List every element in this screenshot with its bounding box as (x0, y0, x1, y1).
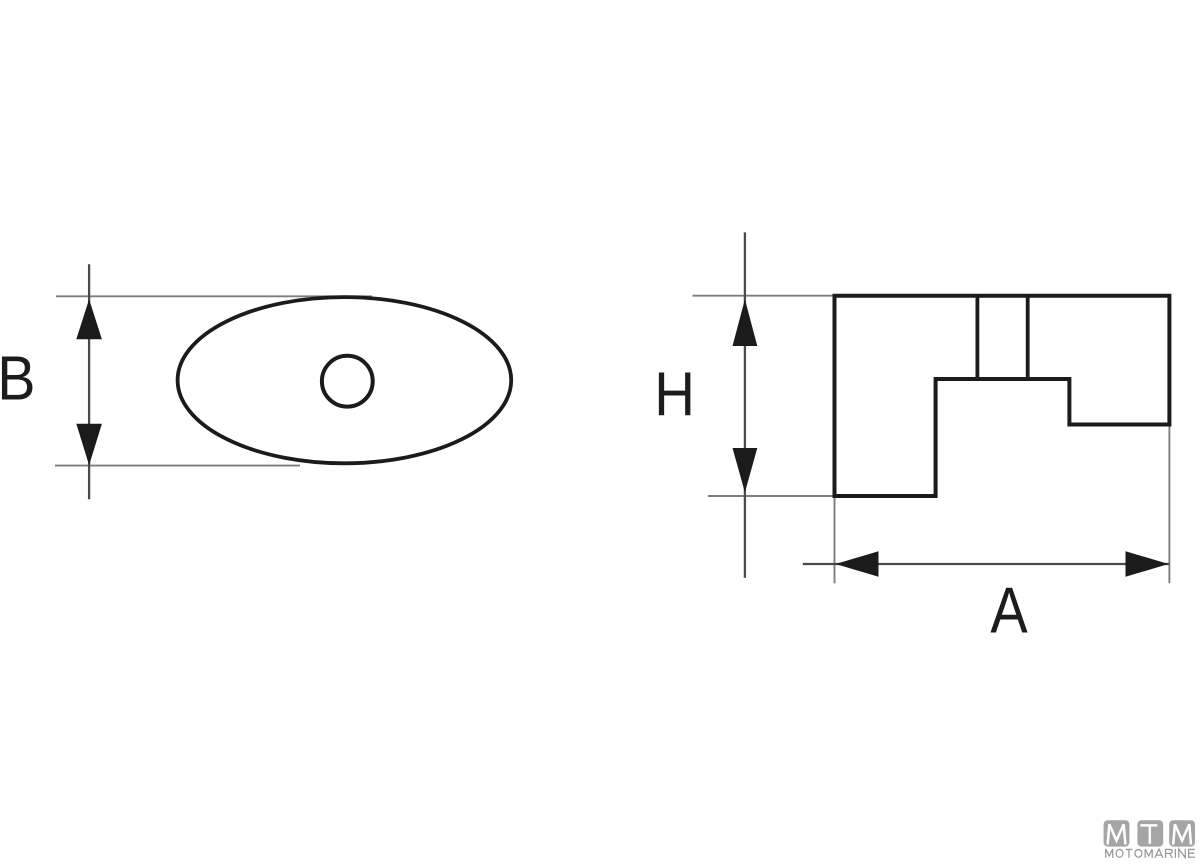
dimension B bottom extension line (55, 465, 300, 467)
svg-text:H: H (654, 359, 695, 429)
ellipse outline (oval anode top view) (178, 297, 512, 463)
dimension H line (744, 232, 746, 577)
dimension H bottom extension line (708, 495, 834, 497)
center hole (322, 356, 373, 407)
logo MTM square 3 (1169, 820, 1195, 846)
dimension A arrow right (1126, 551, 1169, 577)
dimension B line (88, 264, 90, 499)
dimension B top extension line (56, 295, 372, 297)
logo letter M 1 (1108, 824, 1126, 844)
dimension A line (803, 563, 1170, 565)
logo MTM square 2 (1137, 820, 1163, 846)
dimension A right extension line (1168, 427, 1170, 584)
logo letter M 3 (1173, 824, 1191, 844)
logo letter T (1140, 825, 1157, 843)
dimension A left extension line (834, 498, 836, 583)
logo MOTOMARINE text (1106, 849, 1195, 858)
svg-text:B: B (0, 344, 35, 414)
dimension B arrow down (76, 424, 102, 466)
dimension H arrow up (733, 299, 758, 346)
dimension H top extension line (693, 295, 835, 297)
slot left line (976, 296, 980, 379)
svg-text:A: A (990, 574, 1028, 647)
logo MTM square 1 (1104, 820, 1130, 846)
dimension H arrow down (733, 448, 758, 493)
dimension A arrow left (836, 551, 879, 577)
side view stepped outline (835, 296, 1170, 496)
slot right line (1026, 296, 1030, 379)
dimension B arrow up (76, 299, 102, 339)
